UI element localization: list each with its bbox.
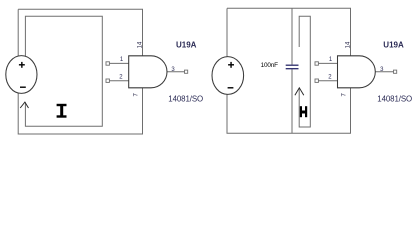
- svg-text:100nF: 100nF: [261, 62, 278, 69]
- svg-text:U19A: U19A: [176, 40, 197, 49]
- svg-text:14: 14: [345, 41, 351, 48]
- svg-text:U19A: U19A: [383, 41, 404, 50]
- svg-text:14081/SO: 14081/SO: [168, 95, 203, 104]
- svg-text:14: 14: [137, 41, 143, 48]
- svg-text:14081/SO: 14081/SO: [377, 95, 412, 104]
